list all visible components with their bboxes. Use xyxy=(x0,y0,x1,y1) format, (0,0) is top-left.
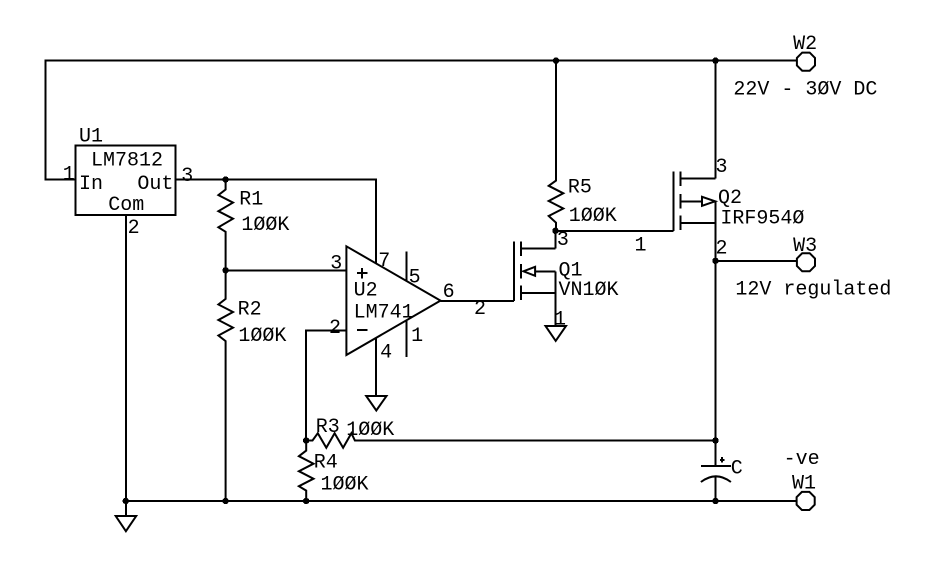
svg-text:C: C xyxy=(731,458,743,481)
junction node cap bottom xyxy=(712,498,718,504)
junction node Q2 source top xyxy=(712,58,718,64)
ground at bottom rail left xyxy=(125,501,127,516)
svg-text:1ØØK: 1ØØK xyxy=(321,473,369,496)
wire top rail xyxy=(45,60,797,62)
svg-text:Com: Com xyxy=(108,194,144,217)
svg-text:5: 5 xyxy=(409,266,421,289)
svg-text:3: 3 xyxy=(716,156,728,179)
junction node Q1 drain / R5 / Q2 gate xyxy=(552,228,558,234)
svg-text:3: 3 xyxy=(181,165,193,188)
junction node R2 bottom xyxy=(222,498,228,504)
junction node R5 top xyxy=(553,58,559,64)
terminal W3 xyxy=(797,253,815,271)
svg-text:1ØØK: 1ØØK xyxy=(346,419,394,442)
svg-text:R3: R3 xyxy=(316,416,340,439)
svg-text:1: 1 xyxy=(554,309,566,332)
svg-text:W3: W3 xyxy=(793,235,817,258)
wire op-amp pin 2 xyxy=(306,331,346,441)
capacitor C xyxy=(701,465,731,467)
svg-text:R2: R2 xyxy=(238,298,262,321)
svg-text:LM741: LM741 xyxy=(354,302,414,325)
resistor R4 xyxy=(299,441,314,502)
svg-text:1ØØK: 1ØØK xyxy=(238,325,286,348)
wire U1 Out to op-amp pin7 xyxy=(176,180,376,264)
op-amp pin 5 stub xyxy=(406,251,408,280)
wire node to Q2 gate xyxy=(556,230,674,232)
svg-text:W1: W1 xyxy=(792,473,816,496)
junction node R3/R4/pin2 xyxy=(303,437,309,443)
terminal W2 xyxy=(797,53,815,71)
op-amp pin 1 stub xyxy=(406,321,408,357)
svg-text:3: 3 xyxy=(330,252,342,275)
svg-text:2: 2 xyxy=(474,298,486,321)
resistor R1 xyxy=(218,180,233,271)
wire right bus down to capacitor xyxy=(715,261,717,466)
junction node W3 xyxy=(712,258,718,264)
svg-text:In: In xyxy=(79,173,103,196)
wire Q1 drain up to node xyxy=(555,231,557,249)
wire node to op-amp pin 3 xyxy=(226,269,347,271)
regulator U1 LM7812 box xyxy=(76,146,176,216)
junction node R4 bottom xyxy=(303,498,309,504)
svg-text:R4: R4 xyxy=(314,451,338,474)
op-amp U2 triangle xyxy=(346,246,440,355)
svg-text:W2: W2 xyxy=(793,33,817,56)
svg-text:2: 2 xyxy=(128,217,140,240)
resistor R5 xyxy=(549,61,564,231)
junction node R1 / R2 / pin3 xyxy=(222,267,228,273)
wire W3 output xyxy=(716,260,797,262)
svg-text:-ve: -ve xyxy=(784,448,820,471)
svg-text:1ØØK: 1ØØK xyxy=(569,205,617,228)
transistor Q1 VN10K xyxy=(513,241,515,300)
wire Q1 source down xyxy=(555,271,557,325)
resistor R3 xyxy=(306,433,715,448)
svg-text:LM7812: LM7812 xyxy=(91,149,163,172)
op-amp plus sign xyxy=(357,272,368,274)
wire bottom rail xyxy=(126,500,796,502)
junction node ground rail left xyxy=(123,498,129,504)
svg-text:6: 6 xyxy=(443,281,455,304)
svg-text:4: 4 xyxy=(380,342,392,365)
wire Q2 source up to top rail xyxy=(715,61,717,179)
svg-text:1: 1 xyxy=(63,164,75,187)
ground Q1 source xyxy=(546,326,567,341)
svg-text:1: 1 xyxy=(411,325,423,348)
wire left drop to U1 In xyxy=(46,61,76,180)
terminal W1 xyxy=(797,492,815,510)
svg-text:IRF954Ø: IRF954Ø xyxy=(720,207,804,230)
svg-text:Out: Out xyxy=(137,173,173,196)
ground op-amp pin 4 xyxy=(366,396,386,411)
transistor Q2 IRF9540 xyxy=(673,171,675,230)
svg-text:2: 2 xyxy=(716,237,728,260)
wire W1 xyxy=(716,500,796,502)
wire U1 Com pin 2 xyxy=(125,215,127,501)
svg-text:7: 7 xyxy=(378,250,390,273)
svg-text:R1: R1 xyxy=(239,188,263,211)
junction node R3 / cap xyxy=(712,437,718,443)
svg-text:1ØØK: 1ØØK xyxy=(241,214,289,237)
svg-text:1: 1 xyxy=(635,235,647,258)
svg-text:22V - 3ØV DC: 22V - 3ØV DC xyxy=(733,79,877,102)
wire op-amp output to Q1 gate xyxy=(441,300,515,302)
resistor R2 xyxy=(218,270,233,501)
svg-text:VN1ØK: VN1ØK xyxy=(559,279,619,302)
svg-text:12V regulated: 12V regulated xyxy=(735,278,891,301)
junction node U1 out / R1 xyxy=(222,176,228,182)
op-amp pin 4 wire xyxy=(375,338,377,396)
svg-text:3: 3 xyxy=(557,229,569,252)
wire Q2 drain down to W3 node xyxy=(715,201,717,260)
svg-text:R5: R5 xyxy=(568,176,592,199)
svg-text:U1: U1 xyxy=(79,126,103,149)
svg-text:2: 2 xyxy=(329,317,341,340)
op-amp minus sign xyxy=(357,329,368,331)
svg-text:U2: U2 xyxy=(354,279,378,302)
